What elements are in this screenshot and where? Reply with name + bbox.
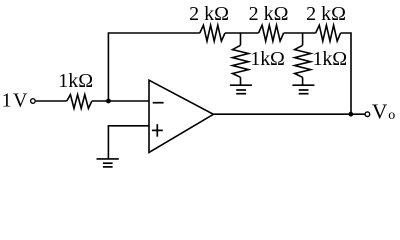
svg-text:1kΩ: 1kΩ — [250, 48, 284, 70]
svg-text:V: V — [372, 99, 388, 123]
svg-text:2 kΩ: 2 kΩ — [189, 3, 229, 25]
svg-text:2 kΩ: 2 kΩ — [249, 3, 289, 25]
svg-text:1kΩ: 1kΩ — [58, 70, 93, 92]
svg-text:o: o — [388, 108, 395, 123]
svg-text:2 kΩ: 2 kΩ — [306, 3, 346, 25]
svg-text:1kΩ: 1kΩ — [313, 48, 347, 70]
svg-text:1V: 1V — [2, 90, 29, 112]
